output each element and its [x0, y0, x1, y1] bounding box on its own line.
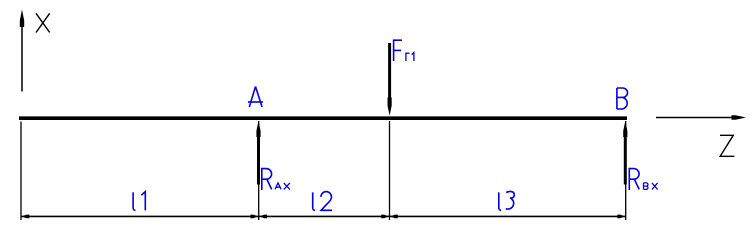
dimension arrow pair at A: [250, 215, 258, 219]
X axis label: [36, 13, 50, 32]
Z axis line: [656, 117, 733, 119]
reaction RBX arrow (upward at B): [623, 121, 627, 185]
dimension arrow pair at F: [381, 215, 389, 219]
dimension line: [21, 215, 626, 217]
force Fr1 arrow (downward): [388, 43, 392, 116]
extension line at A (x=258.7): [258, 121, 260, 220]
extension line at F (x=389.5): [389, 121, 391, 220]
dimension arrow left end: [22, 215, 30, 219]
label Fr1 subscript: [406, 53, 414, 62]
label l2: [313, 192, 332, 211]
label l1: [133, 192, 145, 211]
label B: [617, 88, 628, 109]
label RAX: [262, 169, 272, 190]
Z axis arrowhead: [732, 115, 747, 120]
label RBX: [629, 169, 639, 190]
label l3: [499, 191, 515, 210]
label RBX subscript: [644, 183, 658, 190]
label A: [248, 87, 263, 108]
Z axis label: [720, 135, 734, 156]
X axis arrowhead: [20, 10, 24, 28]
beam: [19, 116, 627, 120]
X axis line: [21, 26, 23, 92]
dimension arrow right end: [617, 215, 625, 219]
label RAX subscript: [275, 183, 290, 190]
reaction RAX arrow (upward at A): [256, 121, 260, 185]
extension line left (x=21): [20, 122, 22, 221]
extension line right (x=625.7): [625, 121, 627, 220]
label Fr1: [394, 40, 402, 61]
